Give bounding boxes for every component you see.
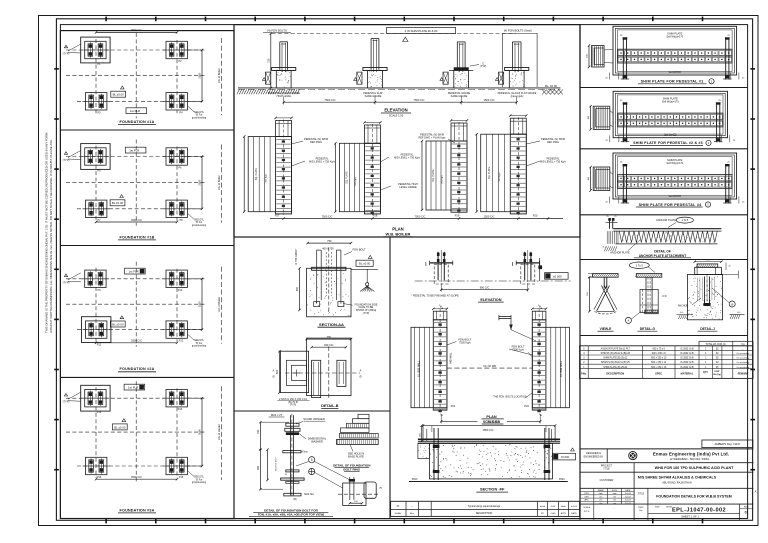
elevation top boxed note SHIM PLATE <box>387 27 456 33</box>
svg-text:Self Wt(a)=170: Self Wt(a)=170 <box>662 101 679 104</box>
bottom dimension line <box>96 342 177 344</box>
shim left dimension <box>588 46 590 68</box>
title block row2 project title <box>633 463 635 473</box>
svg-text:7500 C/C: 7500 C/C <box>414 98 425 102</box>
floor label box <box>124 384 145 390</box>
shim end anchor rods <box>622 102 624 142</box>
ladder left dimension <box>476 134 478 212</box>
svg-text:MID WALL: MID WALL <box>450 352 453 364</box>
svg-text:DESCRIPTION: DESCRIPTION <box>606 372 624 376</box>
svg-text:SHIM PLATE (B) 25x12: SHIM PLATE (B) 25x12 <box>603 366 628 369</box>
svg-text:APPD: APPD <box>561 512 567 515</box>
svg-text:UNIT: UNIT <box>715 371 721 373</box>
svg-text:900 Kg/s: 900 Kg/s <box>355 176 357 186</box>
ladder cap <box>451 123 467 141</box>
elevation left dimension line <box>270 34 272 88</box>
svg-text:BL.±0.00: BL.±0.00 <box>112 322 124 326</box>
svg-text:CHD: CHD <box>551 513 556 515</box>
pedestal anchor bolts in column <box>281 43 283 72</box>
svg-text:2500: 2500 <box>198 179 202 185</box>
section AA grout plate <box>312 267 346 270</box>
oval 1 To 5 marker <box>629 262 649 268</box>
svg-text:THIS DRAWING IS THE PROPERTY O: THIS DRAWING IS THE PROPERTY OF ENMAS EN… <box>45 132 49 333</box>
svg-text:FDN BOLT: FDN BOLT <box>352 248 365 252</box>
bolt group top-left P9 <box>85 270 106 287</box>
anchor plate bottom line <box>616 243 718 245</box>
middle top panel box <box>234 25 580 237</box>
svg-text:SHIM PL (B) 25x12 & (B) 25: SHIM PL (B) 25x12 & (B) 25 <box>601 362 630 364</box>
shim left dimension <box>590 106 592 129</box>
svg-text:P023: P023 <box>559 478 565 481</box>
svg-text:SCARF WASHER: SCARF WASHER <box>303 417 325 421</box>
ladder bolt strip <box>451 141 467 212</box>
svg-text:P15: P15 <box>97 476 102 479</box>
centerline dashed horizontal bottom row <box>77 100 205 102</box>
section FF left strip <box>418 443 430 458</box>
bolt group bottom-left P3 <box>86 93 107 110</box>
svg-text:DESCRIPTION: DESCRIPTION <box>476 512 493 515</box>
svg-text:2500: 2500 <box>198 301 202 307</box>
svg-text:±0.000: ±0.000 <box>553 274 562 278</box>
svg-text:(TYP): (TYP) <box>63 158 70 162</box>
level label box BL <box>110 321 125 327</box>
svg-text:c/m: c/m <box>599 496 603 498</box>
svg-text:ANCHOR PLATE: ANCHOR PLATE <box>610 251 630 254</box>
svg-text:IS 2062 Gr.B: IS 2062 Gr.B <box>680 347 694 350</box>
svg-text:╰a: ╰a <box>537 304 541 308</box>
svg-text:SHEET 1 OF 1: SHEET 1 OF 1 <box>681 515 699 519</box>
svg-text:1st FLR: 1st FLR <box>130 109 140 113</box>
centerline dashed vertical middle <box>135 140 137 226</box>
pedestal side channel <box>443 72 448 84</box>
view E top plate <box>593 274 619 278</box>
svg-text:MATERIAL: MATERIAL <box>681 373 694 376</box>
ladder cap <box>510 118 526 134</box>
svg-text:A: A <box>755 490 757 494</box>
plan bottom dimension line <box>270 218 563 220</box>
svg-text:TITLE: TITLE <box>603 468 610 471</box>
right column panel dividers <box>580 87 748 89</box>
anchor bolt mid plate <box>283 451 301 453</box>
bolt group bottom-left P11 <box>82 317 111 343</box>
border zone ticks right <box>750 69 755 470</box>
ladder outer body <box>339 143 380 211</box>
floor label box <box>125 147 146 153</box>
svg-text:SHIM PLATE FOR PEDESTAL #4: SHIM PLATE FOR PEDESTAL #4 <box>639 203 703 207</box>
shim left attachment section <box>593 167 610 191</box>
anchor plate main plate <box>613 228 721 230</box>
shim left attachment section <box>593 106 610 129</box>
section AA anchor bolt centerline <box>328 248 330 315</box>
svg-text:600 x 75 x 6: 600 x 75 x 6 <box>652 348 665 350</box>
svg-text:C/L of Heater: C/L of Heater <box>217 424 221 440</box>
svg-text:QTY.: QTY. <box>703 372 708 374</box>
svg-text:Ø: Ø <box>273 376 275 379</box>
pedestal base plate <box>272 68 296 71</box>
centerline dashed vertical right <box>176 388 178 478</box>
centerline dashed vertical left <box>95 268 97 342</box>
svg-text:Ø: Ø <box>360 376 362 379</box>
section FF top dimension <box>423 425 555 427</box>
detail B left nested rectangles <box>280 351 308 392</box>
pedestal buried outline dashed <box>521 264 535 284</box>
svg-text:1st FLR: 1st FLR <box>129 149 139 153</box>
svg-text:1850 C/C: 1850 C/C <box>483 428 494 432</box>
elevation long dashed tie line <box>272 33 517 35</box>
bolt group top-right P10 <box>166 270 187 287</box>
svg-text:PLAN: PLAN <box>486 415 497 419</box>
svg-text:c/m: c/m <box>613 496 617 498</box>
detail J embedded bolt <box>704 277 706 306</box>
anchor bolt lower plates <box>286 470 299 472</box>
centerline dashed vertical middle <box>135 33 137 118</box>
svg-text:460 C/C: 460 C/C <box>324 343 334 347</box>
centerline dashed vertical left <box>95 146 97 221</box>
pedestal bolt rods <box>437 252 439 280</box>
bolt group top-left P13 <box>81 385 110 411</box>
plan ladder cap <box>433 311 447 320</box>
pedestal top plate line <box>430 262 453 264</box>
svg-text:P.No.: P.No. <box>581 373 587 376</box>
svg-text:G.L.: G.L. <box>737 312 742 314</box>
svg-text:P22: P22 <box>524 404 529 408</box>
svg-text:SHIM PLATE FOR PEDESTAL #1: SHIM PLATE FOR PEDESTAL #1 <box>641 80 704 84</box>
svg-text:DATE: DATE <box>571 512 577 515</box>
shim bolt band <box>618 49 733 63</box>
svg-text:Wt.(Kg): Wt.(Kg) <box>713 373 721 376</box>
svg-text:LEVEL GRADE: LEVEL GRADE <box>399 186 417 189</box>
detail G circled 4 marker <box>625 317 631 323</box>
svg-text:2-6-03: 2-6-03 <box>625 496 632 498</box>
centerline dashed horizontal mid <box>66 75 205 77</box>
ground hatch left <box>237 89 300 94</box>
svg-text:M24 Nut: M24 Nut <box>304 493 314 496</box>
svg-text:On assembly: On assembly <box>737 367 751 369</box>
pedestal base plate <box>363 68 387 71</box>
centerline dashed horizontal mid <box>66 431 205 433</box>
plan ladder bolt strip <box>532 320 546 410</box>
svg-text:ANCHOR PLATE 90x12 PLT: ANCHOR PLATE 90x12 PLT <box>601 347 631 350</box>
centerline dashed horizontal mid <box>66 182 205 184</box>
title block row4 small grid <box>593 488 595 504</box>
detail G top plate <box>636 274 662 278</box>
centerline dashed vertical middle <box>135 381 137 483</box>
vertical divider between middle subcolumns <box>389 237 391 519</box>
detail J top dimension marks <box>695 261 722 263</box>
shim bottom corner ticks <box>609 73 611 80</box>
svg-text:600 x 150 x 10: 600 x 150 x 10 <box>651 358 667 360</box>
ladder outer body <box>248 137 291 212</box>
plan horizontal centerline dashed <box>447 367 532 369</box>
svg-text:ELEVATION: ELEVATION <box>480 298 501 302</box>
svg-text:EPL-J1047-00-002: EPL-J1047-00-002 <box>672 508 726 514</box>
svg-text:BL.±0.00: BL.±0.00 <box>114 425 126 429</box>
view E stem and legs <box>603 277 605 288</box>
svg-text:(B): (B) <box>293 498 296 501</box>
bolt plan square detail <box>343 483 366 505</box>
svg-text:FOUNDATION #3A: FOUNDATION #3A <box>120 508 155 512</box>
bolt group bottom-left P7 <box>86 200 107 217</box>
centerline dashed vertical right <box>176 147 178 221</box>
elevation bottom dimension line <box>284 101 517 103</box>
svg-text:MID LEVEL + 750 Kg/s: MID LEVEL + 750 Kg/s <box>394 157 420 160</box>
svg-text:Self Wt(a)=170: Self Wt(a)=170 <box>666 162 683 165</box>
centerline dashed horizontal bottom row <box>77 465 205 467</box>
floor label box <box>125 268 146 274</box>
svg-text:2-6-03: 2-6-03 <box>625 493 632 495</box>
svg-text:4 Nos: 4 Nos <box>301 451 308 454</box>
title block row1 designed by cell <box>606 449 608 463</box>
svg-text:3500 C/C: 3500 C/C <box>131 218 142 222</box>
svg-text:╰a: ╰a <box>438 304 442 308</box>
svg-text:150: 150 <box>257 429 260 434</box>
svg-text:M24 x 27: M24 x 27 <box>271 413 283 417</box>
company logo <box>629 452 637 460</box>
ground line <box>238 87 561 89</box>
svg-text:(TYP): (TYP) <box>480 65 486 68</box>
pedestal side channel <box>266 72 271 84</box>
centerline dashed vertical left <box>95 387 97 478</box>
title block row3 customer <box>633 472 635 488</box>
level label box BL <box>111 91 126 97</box>
anchor bolt top nut stack <box>286 423 299 426</box>
svg-text:900 Kg/s: 900 Kg/s <box>442 174 444 184</box>
shim bolt band <box>618 113 723 127</box>
svg-text:HYDERABAD - 500 016, INDIA.: HYDERABAD - 500 016, INDIA. <box>670 457 710 461</box>
detail G bottom hatch band <box>645 310 658 314</box>
svg-text:WASHER: WASHER <box>311 440 323 444</box>
svg-text:SCALE-BB: SCALE-BB <box>483 420 501 424</box>
svg-text:P11: P11 <box>97 344 102 347</box>
svg-text:900: 900 <box>257 465 260 470</box>
revision table <box>391 501 580 516</box>
svg-text:900 Kg/s: 900 Kg/s <box>265 173 267 183</box>
pedestal anchor bolts in column <box>514 43 516 72</box>
svg-text:Self Wt=650: Self Wt=650 <box>664 134 677 137</box>
svg-text:10 THK GROUT: 10 THK GROUT <box>296 248 298 265</box>
section FF right end post <box>544 428 546 480</box>
shim bottom corner ticks <box>609 135 611 142</box>
svg-text:Initial: Initial <box>540 505 546 508</box>
svg-text:THE FDN. BOLTS LOCATION: THE FDN. BOLTS LOCATION <box>493 395 527 398</box>
svg-text:CUSTOMER: CUSTOMER <box>600 479 614 482</box>
svg-text:DRN: DRN <box>584 493 589 495</box>
svg-text:SQ. PLATE: SQ. PLATE <box>488 166 491 179</box>
svg-text:(TYP): (TYP) <box>290 404 296 407</box>
svg-text:ANCHOR PLATE ATTACHMENT: ANCHOR PLATE ATTACHMENT <box>639 254 687 258</box>
pedestal base plate <box>505 68 529 71</box>
svg-text:C/L SIDE WALL: C/L SIDE WALL <box>418 360 421 377</box>
svg-text:(pass) gully: (pass) gully <box>511 95 525 98</box>
shim bottom corner ticks <box>609 197 611 204</box>
svg-text:On assembly: On assembly <box>737 353 751 355</box>
svg-text:(TYP): (TYP) <box>363 312 370 315</box>
pedestal base block <box>454 70 469 88</box>
title block outer <box>580 448 753 450</box>
svg-text:c/m: c/m <box>599 500 603 502</box>
svg-text:ELEVATION: ELEVATION <box>384 108 407 113</box>
svg-text:DETAIL-J: DETAIL-J <box>700 327 715 331</box>
svg-text:C/L of Boiler: C/L of Boiler <box>217 175 221 190</box>
svg-text:C/L SIDE WALL: C/L SIDE WALL <box>560 360 563 377</box>
svg-text:ELEV: ELEV <box>612 490 618 492</box>
detail J circled phi marker <box>729 301 735 307</box>
svg-text:grout/leveling: grout/leveling <box>192 224 207 227</box>
pedestal column <box>370 39 372 70</box>
svg-text:MID LEVEL + 750 Kg/s: MID LEVEL + 750 Kg/s <box>540 161 566 164</box>
svg-text:SECTION -FF: SECTION -FF <box>480 487 505 492</box>
section AA top dimension <box>308 242 351 244</box>
ladder outer body <box>481 134 527 212</box>
svg-text:600: 600 <box>275 369 279 374</box>
section AA ground reference line and symbol <box>351 268 378 270</box>
top dimension line <box>96 31 177 33</box>
view E dimension <box>588 277 590 311</box>
svg-text:600 x 150 x 8: 600 x 150 x 8 <box>652 353 667 355</box>
svg-text:ENGINEERED BY: ENGINEERED BY <box>584 456 604 459</box>
shim assembly outer rect <box>613 153 737 199</box>
right dimension bracket <box>185 49 202 51</box>
svg-text:(TYP): (TYP) <box>63 280 70 284</box>
anchor bolt rod <box>289 415 291 495</box>
svg-text:P18: P18 <box>373 214 378 218</box>
svg-text:WITHOUT WRITTEN PERMISSION. AL: WITHOUT WRITTEN PERMISSION. ALL DIMENSIO… <box>49 139 53 333</box>
ladder left dimension <box>334 143 336 211</box>
shim end anchor rods <box>622 164 624 204</box>
C/L of boiler dashed line <box>221 386 223 480</box>
detail B pocket slots <box>312 360 321 397</box>
level label box BL <box>112 424 127 430</box>
pedestal column <box>511 42 513 70</box>
bolt group bottom-right P8 <box>166 200 187 217</box>
elevation warning triangle <box>403 37 408 41</box>
border zone ticks left <box>54 69 59 470</box>
floor label box <box>126 108 147 114</box>
parts table grid <box>580 346 753 379</box>
svg-text:750: 750 <box>327 239 332 243</box>
svg-text:DETAIL-G: DETAIL-G <box>640 327 656 331</box>
mid-right elevation right-side accessories <box>539 258 541 281</box>
svg-text:DWG.: DWG. <box>638 507 644 509</box>
svg-text:Self Wt=650: Self Wt=650 <box>669 195 682 198</box>
pedestal bolt rods <box>524 252 526 280</box>
title block row5 scale cells <box>593 504 595 520</box>
svg-text:P17: P17 <box>275 214 280 218</box>
svg-text:FOUNDATION #2A: FOUNDATION #2A <box>120 367 155 371</box>
svg-text:P13: P13 <box>97 411 102 414</box>
section FF top chord <box>418 438 560 440</box>
svg-text:ABU ROAD, RAJASTHAN: ABU ROAD, RAJASTHAN <box>662 482 692 485</box>
svg-text:c/m: c/m <box>613 503 617 505</box>
svg-text:(4) FDN BOLTS: (4) FDN BOLTS <box>267 29 287 33</box>
bolt detail inner dimension chain <box>267 450 269 480</box>
shim left dimension <box>590 167 592 191</box>
centerline dashed horizontal top row <box>66 278 205 280</box>
svg-text:Self Wt(a)=170: Self Wt(a)=170 <box>666 36 683 39</box>
plan ladder bolt strip <box>433 320 447 410</box>
svg-text:SECTION-AA: SECTION-AA <box>319 322 344 327</box>
svg-text:SQ. PLATE: SQ. PLATE <box>432 169 435 182</box>
centerline dashed vertical middle <box>135 262 137 347</box>
svg-text:c/m: c/m <box>613 500 617 502</box>
svg-text:SQ. PLATE: SQ. PLATE <box>345 171 348 184</box>
svg-text:NAME: NAME <box>598 489 604 492</box>
svg-text:HIGH LEVEL: HIGH LEVEL <box>277 95 292 98</box>
pedestal base block <box>276 70 291 88</box>
ladder left dimension <box>243 137 245 212</box>
section AA bolt pocket U shape <box>316 250 318 304</box>
svg-text:P21: P21 <box>451 404 456 408</box>
svg-text:VIEW-E: VIEW-E <box>600 327 612 331</box>
svg-text:* PEDESTAL TO BE FINISHED AT S: * PEDESTAL TO BE FINISHED AT SLOPE <box>411 295 459 298</box>
pedestal base block <box>509 70 524 88</box>
svg-text:ANCHOR: ANCHOR <box>678 305 689 308</box>
shim assembly outer rect <box>613 91 727 137</box>
border zone ticks bottom <box>106 519 702 524</box>
svg-text:SCALE: SCALE <box>583 506 591 509</box>
svg-text:3000: 3000 <box>198 429 202 435</box>
svg-text:Self Wt=650: Self Wt=650 <box>669 71 682 74</box>
svg-text:7500 C/C: 7500 C/C <box>415 214 426 218</box>
anchor plate left bolt detail <box>609 219 611 229</box>
svg-text:C/L of Boiler: C/L of Boiler <box>217 68 221 83</box>
horizontal divider above foundation bolt detail panel <box>234 410 390 412</box>
svg-text:REF DWG: REF DWG <box>310 141 322 144</box>
svg-text:FOUNDATION DETAILS FOR W.B.B S: FOUNDATION DETAILS FOR W.B.B SYSTEM <box>656 495 732 499</box>
svg-text:460 X 750: 460 X 750 <box>322 247 334 250</box>
svg-text:c/m: c/m <box>599 503 603 505</box>
ladder left dimension <box>421 141 423 210</box>
circled plus marker <box>309 468 315 474</box>
svg-text:P19: P19 <box>455 214 460 218</box>
svg-text:BL. ±0.00: BL. ±0.00 <box>545 84 557 88</box>
svg-text:REF DWG: REF DWG <box>547 141 559 144</box>
svg-text:IS 2062 Gr.B: IS 2062 Gr.B <box>680 361 694 364</box>
svg-text:7500 Kg/s: 7500 Kg/s <box>512 348 524 352</box>
svg-text:BOLT RING: BOLT RING <box>343 467 360 471</box>
svg-text:FOUNDATION #1B: FOUNDATION #1B <box>120 235 155 239</box>
svg-text:3500 C/C: 3500 C/C <box>131 28 142 32</box>
shim end anchor rods <box>622 37 624 79</box>
section FF end verticals outer <box>422 426 424 441</box>
svg-text:P12: P12 <box>179 340 184 343</box>
horizontal divider under WB boiler plan <box>234 236 580 238</box>
svg-text:4 IN SHIM PLATE #2 & #3: 4 IN SHIM PLATE #2 & #3 <box>405 29 438 33</box>
pedestal side channel <box>357 72 362 84</box>
bolt group top-right P14 <box>166 390 187 407</box>
svg-text:BASE PLATE: BASE PLATE <box>348 454 364 458</box>
svg-text:(4) FDN BOLTS (Seal): (4) FDN BOLTS (Seal) <box>504 29 532 33</box>
ambers reg box <box>702 440 753 448</box>
ladder bolt strip <box>365 143 381 214</box>
svg-text:M24 TO SUIT: M24 TO SUIT <box>276 457 278 471</box>
bolt detail left dimension chain <box>259 422 261 489</box>
svg-text:C/L OF WB: C/L OF WB <box>483 365 496 368</box>
section AA left dimension bracket <box>299 268 301 310</box>
detail B top dimensions <box>307 338 351 340</box>
svg-text:(TYP): (TYP) <box>63 400 70 404</box>
plan ladder cap <box>532 311 546 320</box>
left column panel dividers <box>60 129 234 131</box>
svg-text:eqm: eqm <box>599 493 603 495</box>
svg-text:3500 C/C: 3500 C/C <box>131 339 142 343</box>
svg-text:--: -- <box>742 348 744 350</box>
svg-text:--: -- <box>411 506 413 508</box>
svg-text:7500 C/C: 7500 C/C <box>322 214 333 218</box>
svg-text:750: 750 <box>327 335 332 339</box>
centerline dashed vertical right <box>176 40 178 113</box>
svg-text:7500 Kg/s: 7500 Kg/s <box>459 340 471 344</box>
